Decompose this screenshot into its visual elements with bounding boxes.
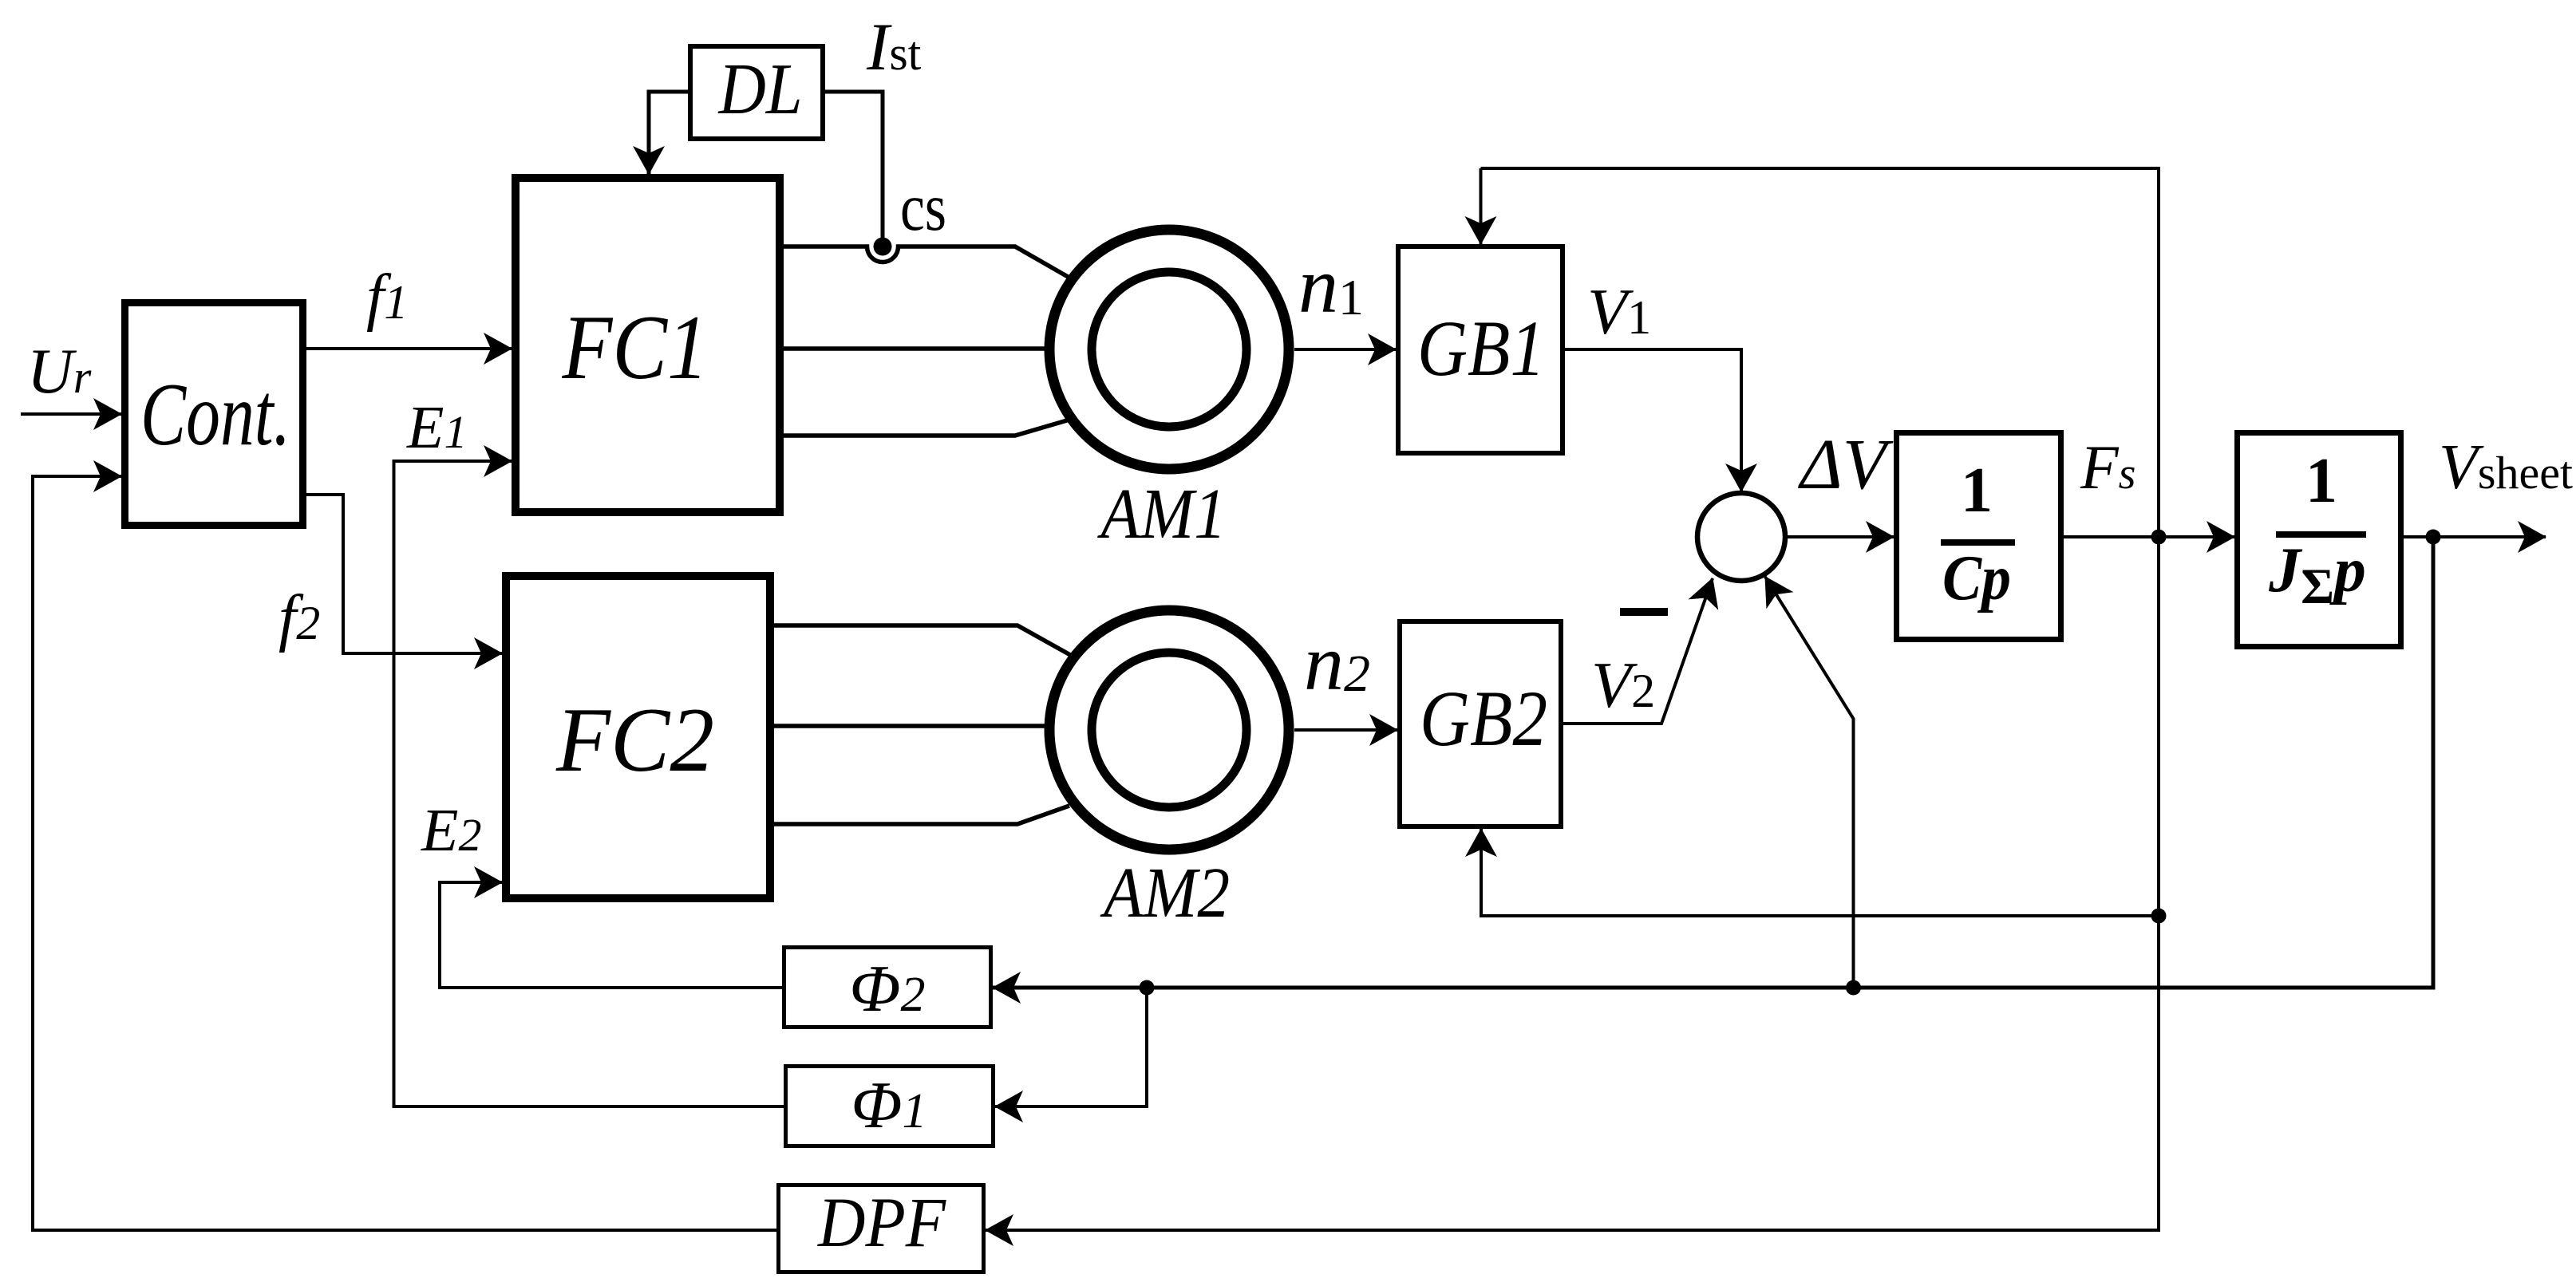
junction dot summing tap — [1846, 980, 1861, 996]
svg-text:Cont.: Cont. — [140, 365, 290, 464]
wire Fs — [2064, 535, 2234, 538]
svg-text:GB1: GB1 — [1417, 304, 1545, 392]
block 1/Cp — [1897, 433, 2061, 640]
wire top feedback (Fs to GB1 and down right side to DPF) — [986, 168, 2159, 1230]
wire FC1 phase middle — [784, 346, 1046, 351]
junction dot GB2 feedback — [2151, 909, 2167, 924]
block FC2 — [506, 576, 770, 898]
block GB2 — [1400, 621, 1561, 826]
wire V2 to summing junction — [1563, 578, 1713, 724]
svg-text:Ur: Ur — [27, 337, 92, 407]
wire f1 — [306, 347, 512, 350]
junction dot Phi1 tap — [1140, 980, 1155, 996]
wire tap to Phi1 — [995, 988, 1147, 1106]
wire f2 — [306, 495, 502, 653]
wire Vsheet feedback down and left into Phi2 — [993, 537, 2433, 988]
svg-text:AM2: AM2 — [1100, 854, 1230, 933]
svg-text:f1: f1 — [366, 262, 408, 333]
wire n1 — [1294, 348, 1396, 351]
wire FC1 phase bottom — [784, 420, 1067, 436]
svg-text:GB2: GB2 — [1420, 674, 1547, 763]
wire Ist riser to DL — [825, 92, 883, 243]
svg-text:Fs: Fs — [2080, 432, 2135, 502]
fraction bar 1/Cp — [1941, 539, 2015, 546]
svg-text:V2: V2 — [1591, 649, 1655, 721]
svg-text:Ist: Ist — [866, 10, 922, 85]
block Cont. — [125, 303, 303, 526]
wire FC1 phase top with cs hop — [784, 247, 1069, 278]
block 1/Jp — [2238, 433, 2401, 647]
fraction bar 1/Jp — [2276, 531, 2366, 538]
wire Ur input — [21, 412, 121, 416]
wire tap to summing junction lower-right — [1765, 577, 1854, 988]
svg-text:ΔV: ΔV — [1798, 425, 1894, 504]
wire Vsheet output — [2404, 535, 2546, 538]
block DPF — [779, 1185, 984, 1272]
svg-text:1: 1 — [2305, 446, 2337, 516]
wire E1 (Phi1 output to FC1) — [394, 461, 784, 1106]
motor AM1 outer ring — [1049, 230, 1289, 469]
svg-text:AM1: AM1 — [1097, 475, 1226, 554]
svg-text:1: 1 — [1961, 456, 1993, 526]
wire DL output to FC1 top — [649, 92, 688, 174]
block GB1 — [1398, 247, 1563, 453]
svg-text:DL: DL — [717, 49, 803, 129]
wire FC2 phase middle — [774, 724, 1046, 728]
wire FC2 phase bottom — [774, 806, 1069, 824]
svg-text:V1: V1 — [1587, 275, 1651, 348]
wire FC2 phase top — [774, 625, 1072, 656]
svg-text:n2: n2 — [1304, 618, 1370, 707]
wire n2 — [1294, 728, 1397, 732]
svg-text:FC2: FC2 — [555, 689, 714, 791]
motor AM1 inner ring — [1092, 272, 1247, 427]
block Phi1 — [786, 1067, 994, 1146]
svg-text:Cp: Cp — [1942, 543, 2011, 613]
svg-text:f2: f2 — [279, 583, 320, 653]
motor AM2 outer ring — [1049, 610, 1289, 850]
block FC1 — [516, 178, 780, 512]
minus sign at summing junction — [1620, 608, 1668, 616]
wire GB2 bottom feedback — [1481, 829, 2159, 916]
svg-text:cs: cs — [900, 170, 946, 245]
block Phi2 — [784, 948, 991, 1028]
wire summing output dV — [1788, 535, 1894, 538]
junction dot Vsheet line — [2426, 530, 2441, 545]
svg-text:E2: E2 — [421, 797, 481, 864]
wire V1 — [1565, 349, 1741, 491]
wire DPF output to Cont — [33, 476, 776, 1230]
svg-text:DPF: DPF — [817, 1184, 946, 1262]
svg-text:E1: E1 — [406, 394, 467, 461]
svg-text:Vsheet: Vsheet — [2439, 432, 2573, 503]
motor AM2 inner ring — [1092, 653, 1247, 807]
wire E2 (Phi2 output to FC2) — [440, 882, 782, 988]
block DL — [690, 46, 823, 139]
svg-text:FC1: FC1 — [562, 297, 709, 398]
summing junction circle — [1697, 493, 1785, 581]
wire arrow into GB1 top — [1480, 168, 1483, 244]
junction dot cs node — [874, 238, 892, 256]
svg-text:n1: n1 — [1298, 241, 1364, 329]
junction dot Fs line — [2151, 530, 2167, 545]
